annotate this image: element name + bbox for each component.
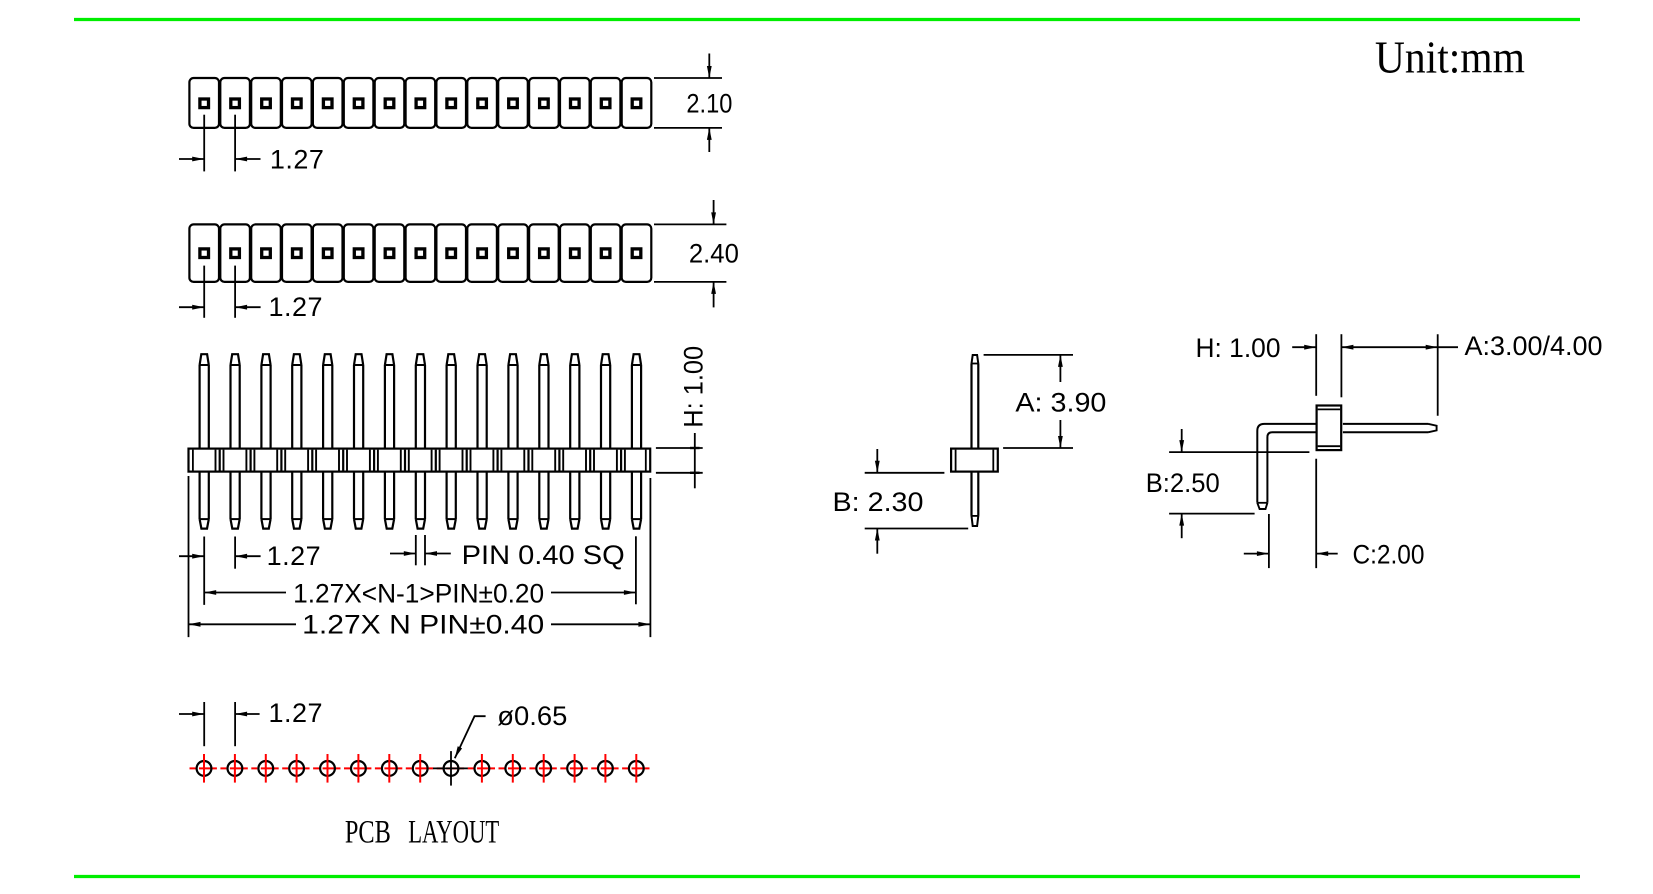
- svg-text:1.27X<N-1>PIN±0.20: 1.27X<N-1>PIN±0.20: [293, 578, 544, 608]
- svg-text:PCB: PCB: [345, 814, 391, 850]
- PCB hole 1 with red crosshair: [197, 754, 212, 783]
- caption PCB LAYOUT: [345, 814, 499, 850]
- svg-text:H: 1.00: H: 1.00: [679, 346, 709, 428]
- PCB hole 4 with red crosshair: [289, 754, 304, 783]
- side view pin 6 lower part: [354, 472, 363, 529]
- svg-text:ø0.65: ø0.65: [497, 701, 567, 731]
- svg-text:A:3.00/4.00: A:3.00/4.00: [1465, 331, 1603, 361]
- side view pin 10 upper part: [478, 354, 487, 448]
- side view pin 11 upper part: [508, 354, 517, 448]
- side view pin 10 lower part: [478, 472, 487, 529]
- side view pin 2 upper part: [231, 354, 240, 448]
- PCB hole 6 with red crosshair: [351, 754, 366, 783]
- row B pin pads (square contacts): [200, 249, 641, 258]
- detail view insulator block (straight pin): [951, 449, 998, 472]
- PCB hole 5 with red crosshair: [320, 754, 335, 783]
- dimension H:1.00 (side view bar height): [656, 346, 709, 489]
- side view pin 9 upper part: [447, 354, 456, 448]
- right-angle pin body: [1257, 424, 1436, 509]
- dimension 2.10 (row A height): [654, 54, 732, 153]
- svg-text:2.10: 2.10: [686, 88, 732, 118]
- side view bar segment separators: [216, 450, 625, 471]
- side view pin 12 upper part: [539, 354, 548, 448]
- side view pin 4 upper part: [292, 354, 301, 448]
- side view pin 8 lower part: [416, 472, 425, 529]
- side view pin 13 upper part: [570, 354, 579, 448]
- side view pin 7 lower part: [385, 472, 394, 529]
- PCB hole 7 with red crosshair: [382, 754, 397, 783]
- leader line ø0.65: [455, 701, 568, 758]
- dimension 1.27X N PIN±0.40 (overall): [189, 476, 651, 639]
- top border green line: [74, 18, 1580, 21]
- dimension C:2.00 (leg offset): [1244, 459, 1425, 570]
- side view insulator bar: [189, 449, 651, 472]
- svg-text:A: 3.90: A: 3.90: [1015, 388, 1106, 418]
- PCB layout red centerline: [190, 767, 651, 769]
- side view pin 3 upper part: [261, 354, 270, 448]
- bottom border green line: [74, 875, 1580, 878]
- PCB hole 11 with red crosshair: [505, 754, 520, 783]
- dimension 2.40 (row B height): [654, 200, 739, 307]
- side view pin 1 upper part: [200, 354, 209, 448]
- side view pin 2 lower part: [231, 472, 240, 529]
- svg-text:1.27X N PIN±0.40: 1.27X N PIN±0.40: [302, 609, 544, 639]
- svg-text:LAYOUT: LAYOUT: [408, 814, 499, 850]
- side view pin 11 lower part: [508, 472, 517, 529]
- dimension PIN 0.40 SQ (pin 8 width): [390, 535, 625, 570]
- svg-text:C:2.00: C:2.00: [1353, 539, 1425, 569]
- dimension 1.27 pitch (PCB layout): [179, 698, 323, 746]
- side view pin 9 lower part: [447, 472, 456, 529]
- pin header top view row B (2.40mm) housing cells: [189, 224, 651, 282]
- dimension A: 3.90 (pin length above block): [984, 355, 1107, 448]
- svg-text:B: 2.30: B: 2.30: [833, 487, 924, 517]
- side view pin 14 upper part: [601, 354, 610, 448]
- dimension B: 2.30 (pin length below block): [833, 449, 969, 554]
- dimension 1.27X(N-1)PIN±0.20: [204, 536, 636, 608]
- svg-text:2.40: 2.40: [689, 238, 739, 268]
- svg-text:H: 1.00: H: 1.00: [1196, 333, 1281, 363]
- PCB hole 8 with red crosshair: [413, 754, 428, 783]
- PCB hole 10 with red crosshair: [475, 754, 490, 783]
- side view pin 8 upper part: [416, 354, 425, 448]
- dimension B:2.50 (right-angle leg length): [1146, 429, 1310, 538]
- side view pin 1 lower part: [200, 472, 209, 529]
- PCB hole 12 with red crosshair: [536, 754, 551, 783]
- side view pin 15 upper part: [632, 354, 641, 448]
- dimension 1.27 pitch (side view): [179, 537, 321, 605]
- PCB hole 9 with black crosshair (dimensioned hole): [433, 751, 468, 786]
- svg-text:B:2.50: B:2.50: [1146, 468, 1220, 498]
- side view pin 6 upper part: [354, 354, 363, 448]
- dimension A:3.00/4.00 (horizontal pin length): [1341, 331, 1602, 416]
- dimension H: 1.00 (right-angle block width): [1196, 333, 1342, 398]
- side view pin 7 upper part: [385, 354, 394, 448]
- row A pin pads (square contacts): [200, 99, 641, 108]
- detail view straight pin upper part: [972, 355, 979, 449]
- PCB hole 13 with red crosshair: [567, 754, 582, 783]
- right-angle pin insulator block: [1317, 406, 1342, 451]
- side view pin 4 lower part: [292, 472, 301, 529]
- svg-text:Unit:mm: Unit:mm: [1375, 32, 1525, 83]
- dimension 1.27 pitch (row A): [179, 115, 324, 175]
- svg-text:1.27: 1.27: [269, 698, 324, 728]
- svg-text:1.27: 1.27: [269, 292, 324, 322]
- side view pin 15 lower part: [632, 472, 641, 529]
- side view pin 3 lower part: [261, 472, 270, 529]
- side view pin 14 lower part: [601, 472, 610, 529]
- side view pin 5 upper part: [323, 354, 332, 448]
- side view pin 13 lower part: [570, 472, 579, 529]
- PCB hole 14 with red crosshair: [598, 754, 613, 783]
- svg-text:1.27: 1.27: [270, 145, 325, 175]
- PCB hole 15 with red crosshair: [629, 754, 644, 783]
- side view pin 12 lower part: [539, 472, 548, 529]
- svg-text:1.27: 1.27: [267, 541, 322, 571]
- PCB hole 2 with red crosshair: [228, 754, 243, 783]
- pin header top view row A (2.10mm) housing cells: [189, 78, 651, 128]
- caption Unit:mm: [1375, 32, 1525, 83]
- side view pin 5 lower part: [323, 472, 332, 529]
- PCB hole 3 with red crosshair: [258, 754, 273, 783]
- detail view straight pin lower part: [972, 472, 979, 526]
- dimension 1.27 pitch (row B): [179, 266, 323, 322]
- leader arrowhead ø0.65: [455, 746, 462, 758]
- svg-text:PIN 0.40 SQ: PIN 0.40 SQ: [462, 540, 625, 570]
